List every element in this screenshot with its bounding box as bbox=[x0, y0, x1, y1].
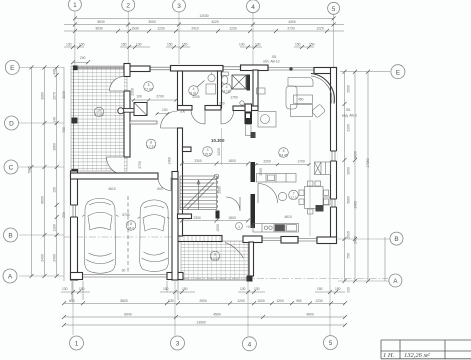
round chair bbox=[278, 192, 286, 200]
svg-text:150: 150 bbox=[79, 287, 85, 291]
svg-text:2410: 2410 bbox=[191, 27, 199, 31]
terrace 200 dim bbox=[71, 56, 90, 64]
svg-text:1700: 1700 bbox=[297, 160, 305, 164]
dining table bbox=[299, 181, 329, 214]
svg-text:750: 750 bbox=[347, 253, 351, 259]
svg-text:B: B bbox=[8, 233, 12, 240]
svg-text:1: 1 bbox=[75, 341, 79, 348]
svg-text:4.18: 4.18 bbox=[223, 90, 230, 94]
svg-text:150: 150 bbox=[79, 43, 85, 47]
svg-text:4610: 4610 bbox=[108, 187, 116, 191]
stairs bbox=[180, 176, 217, 210]
svg-text:10: 10 bbox=[97, 109, 101, 113]
bath door 2 arc bbox=[221, 110, 234, 124]
svg-text:150: 150 bbox=[309, 43, 315, 47]
svg-text:вид. АВ-3: вид. АВ-3 bbox=[342, 114, 357, 118]
svg-text:3: 3 bbox=[176, 341, 180, 348]
hall-kitchen door arc bbox=[226, 197, 240, 211]
terrace top edge bbox=[78, 67, 125, 68]
svg-text:150: 150 bbox=[182, 43, 188, 47]
bottom wall seg A textured bbox=[177, 236, 222, 242]
bubble D left bbox=[5, 116, 19, 130]
svg-text:630: 630 bbox=[168, 299, 174, 303]
kitchen west wall lower bbox=[251, 194, 256, 228]
svg-text:12030: 12030 bbox=[199, 14, 208, 18]
svg-text:2300: 2300 bbox=[194, 159, 202, 163]
svg-text:200: 200 bbox=[62, 212, 66, 218]
svg-text:130: 130 bbox=[239, 43, 245, 47]
svg-text:1500: 1500 bbox=[216, 224, 220, 232]
shelf near wall bbox=[257, 88, 266, 94]
axis stems right bbox=[338, 72, 390, 281]
svg-text:3430: 3430 bbox=[217, 148, 221, 156]
svg-text:1230: 1230 bbox=[315, 299, 323, 303]
top tiny ticks row bbox=[64, 43, 315, 50]
svg-text:130: 130 bbox=[136, 43, 142, 47]
bottom window 1 bbox=[262, 236, 281, 242]
bubble B left bbox=[4, 228, 18, 242]
bubble 5 top bbox=[328, 2, 340, 14]
bubble 2 top bbox=[122, 0, 135, 11]
svg-text:Sl1: Sl1 bbox=[346, 108, 351, 112]
fireplace flue rod bbox=[123, 109, 135, 113]
right wall bbox=[331, 68, 337, 244]
bottom tiny ticks row bbox=[61, 287, 345, 294]
bottom wall seg C bbox=[281, 237, 298, 244]
right window 2 bbox=[330, 199, 337, 207]
svg-text:1390: 1390 bbox=[53, 224, 57, 232]
svg-text:1200: 1200 bbox=[276, 299, 284, 303]
svg-text:1230: 1230 bbox=[157, 27, 165, 31]
bathroom east wall bbox=[253, 70, 258, 108]
svg-text:2: 2 bbox=[126, 2, 130, 9]
svg-text:2700: 2700 bbox=[156, 95, 164, 99]
svg-text:3960: 3960 bbox=[41, 92, 45, 100]
bathroom west wall bbox=[218, 71, 222, 108]
svg-text:6940: 6940 bbox=[124, 313, 132, 317]
svg-text:Sl1: Sl1 bbox=[272, 55, 277, 59]
svg-text:5700: 5700 bbox=[122, 213, 130, 217]
garage door lines bbox=[83, 275, 168, 278]
top french door bbox=[268, 65, 314, 73]
column lower terrace bbox=[247, 276, 253, 282]
axis stems top bbox=[75, 11, 334, 67]
garage bottom wall left cap bbox=[71, 273, 83, 280]
column E1 bbox=[73, 65, 78, 70]
room tag 6 bbox=[279, 148, 289, 158]
svg-text:17.92: 17.92 bbox=[95, 113, 103, 117]
svg-text:2730: 2730 bbox=[138, 161, 142, 169]
room tag terrace low bbox=[210, 251, 220, 261]
axis stems left bbox=[19, 67, 64, 276]
svg-text:1220: 1220 bbox=[316, 27, 324, 31]
bath door 1 arc bbox=[191, 110, 205, 124]
svg-text:B: B bbox=[394, 236, 398, 243]
svg-text:E: E bbox=[10, 65, 15, 72]
svg-text:2000: 2000 bbox=[218, 186, 222, 194]
garage bottom wall right cap bbox=[167, 273, 183, 280]
svg-text:3: 3 bbox=[207, 148, 209, 152]
kitchen wall cabinets bbox=[315, 162, 331, 175]
bottom overall 13930 bbox=[62, 321, 347, 328]
kitchen side cabinet bbox=[246, 125, 252, 136]
svg-text:2590: 2590 bbox=[347, 85, 351, 93]
svg-text:1800: 1800 bbox=[228, 216, 236, 220]
svg-text:C: C bbox=[9, 165, 14, 172]
room tag 4 bbox=[189, 81, 205, 96]
svg-text:1230: 1230 bbox=[229, 27, 237, 31]
top wall piers bbox=[124, 66, 150, 72]
svg-text:150: 150 bbox=[335, 287, 341, 291]
svg-text:100: 100 bbox=[162, 108, 168, 112]
svg-text:1: 1 bbox=[238, 225, 240, 229]
bottom wall seg B bbox=[243, 236, 262, 243]
sofa top seat bbox=[286, 78, 313, 110]
svg-text:1460: 1460 bbox=[168, 157, 172, 165]
svg-text:4610: 4610 bbox=[284, 215, 292, 219]
svg-text:130: 130 bbox=[254, 287, 260, 291]
hearth bench wall bbox=[130, 121, 157, 124]
top dim row2 bbox=[64, 20, 344, 27]
svg-text:520: 520 bbox=[219, 102, 225, 106]
bubble A right bbox=[389, 274, 402, 287]
svg-text:24.46: 24.46 bbox=[279, 154, 287, 158]
top window 1 bbox=[150, 66, 171, 71]
axis stems bottom bbox=[73, 244, 330, 336]
lower terrace hatch bbox=[181, 241, 249, 280]
svg-text:5800: 5800 bbox=[120, 299, 128, 303]
room tag garage bbox=[126, 221, 136, 231]
toilet bbox=[221, 72, 229, 84]
room tag terrace bbox=[94, 107, 104, 117]
axis A dash-dot line bbox=[182, 278, 388, 280]
svg-text:600: 600 bbox=[157, 187, 163, 191]
svg-text:2200: 2200 bbox=[259, 168, 263, 176]
svg-text:4400: 4400 bbox=[288, 20, 296, 24]
armchair bbox=[311, 104, 325, 118]
svg-text:150: 150 bbox=[167, 43, 173, 47]
bubble 3 bottom bbox=[171, 336, 185, 350]
bubble 5 bottom bbox=[324, 336, 338, 350]
svg-text:200: 200 bbox=[80, 56, 86, 60]
svg-text:8: 8 bbox=[150, 141, 152, 145]
bubble 1 top bbox=[68, 0, 81, 11]
note Sl1 right bbox=[342, 108, 357, 118]
kitchen appliance right bbox=[316, 205, 324, 212]
svg-text:4590: 4590 bbox=[213, 313, 221, 317]
garage top wall bbox=[71, 173, 159, 179]
garage foundation ticks bbox=[72, 281, 178, 300]
hall pier bbox=[216, 211, 220, 219]
room tag 1 bbox=[144, 82, 154, 92]
corridor wall y214 bbox=[178, 214, 192, 219]
svg-text:150: 150 bbox=[295, 43, 301, 47]
svg-text:3000: 3000 bbox=[347, 167, 351, 175]
house left wall upper bbox=[124, 64, 130, 77]
shower wall bar bbox=[247, 75, 251, 91]
svg-text:17360: 17360 bbox=[366, 158, 370, 167]
svg-text:4900: 4900 bbox=[306, 313, 314, 317]
right window 1 bbox=[330, 151, 337, 161]
house left wall mid bbox=[124, 91, 130, 157]
svg-text:150: 150 bbox=[53, 187, 57, 193]
garage house door arc bbox=[158, 178, 171, 191]
wardrobe room4 bbox=[206, 84, 216, 94]
rug bbox=[291, 105, 313, 117]
svg-text:1750: 1750 bbox=[230, 96, 238, 100]
svg-text:1400: 1400 bbox=[354, 201, 358, 209]
svg-text:3960: 3960 bbox=[53, 143, 57, 151]
beam line bbox=[309, 120, 311, 236]
svg-text:330: 330 bbox=[347, 287, 351, 293]
room tag 3 bbox=[203, 147, 213, 157]
cabinet living bbox=[258, 112, 276, 128]
bubble C left bbox=[4, 160, 18, 174]
svg-text:D: D bbox=[9, 121, 14, 128]
svg-text:2: 2 bbox=[226, 85, 228, 89]
svg-text:3: 3 bbox=[177, 3, 181, 10]
svg-text:30: 30 bbox=[122, 269, 126, 273]
svg-text:6600: 6600 bbox=[41, 196, 45, 204]
svg-text:A: A bbox=[393, 278, 398, 285]
bubble 4 top bbox=[247, 0, 260, 13]
svg-text:5930: 5930 bbox=[97, 20, 105, 24]
svg-text:2730: 2730 bbox=[287, 27, 295, 31]
svg-text:1000: 1000 bbox=[257, 299, 265, 303]
svg-text:2400: 2400 bbox=[41, 254, 45, 262]
bubble 1 bottom bbox=[70, 336, 84, 350]
hall door arc bbox=[161, 111, 178, 128]
svg-text:132,26 м²: 132,26 м² bbox=[404, 352, 431, 359]
svg-text:7: 7 bbox=[293, 192, 295, 196]
upper terrace hatch bbox=[71, 66, 127, 171]
kitchen west wall upper bbox=[251, 162, 256, 182]
garage left vent bbox=[70, 205, 78, 217]
svg-text:8: 8 bbox=[130, 222, 132, 226]
garage right wall bbox=[172, 179, 178, 280]
wall shelf bbox=[251, 132, 256, 138]
svg-text:2030: 2030 bbox=[347, 231, 351, 239]
svg-text:7985: 7985 bbox=[28, 166, 32, 174]
right chains bbox=[343, 70, 386, 293]
corridor wall y106 bbox=[178, 106, 193, 111]
extension line stairs bbox=[221, 128, 223, 165]
svg-text:A: A bbox=[8, 274, 13, 281]
svg-text:3930: 3930 bbox=[95, 27, 103, 31]
svg-text:13930: 13930 bbox=[196, 321, 205, 325]
svg-text:200: 200 bbox=[180, 110, 186, 114]
svg-text:9: 9 bbox=[214, 253, 216, 257]
svg-text:2300: 2300 bbox=[347, 124, 351, 132]
svg-text:5: 5 bbox=[148, 83, 150, 87]
bubble B right bbox=[390, 232, 403, 245]
wall stub at stairs bbox=[183, 147, 192, 152]
svg-text:130: 130 bbox=[66, 43, 72, 47]
car 1 bbox=[82, 198, 119, 273]
bubble 3 top bbox=[173, 0, 186, 12]
svg-text:960: 960 bbox=[296, 299, 302, 303]
svg-text:150: 150 bbox=[121, 43, 127, 47]
top dim row3 bbox=[64, 27, 344, 34]
spine wall lower bbox=[178, 128, 183, 236]
shower box bbox=[232, 75, 246, 89]
svg-text:150: 150 bbox=[163, 287, 169, 291]
fireplace bbox=[134, 103, 147, 116]
curved wall arc bbox=[311, 74, 334, 104]
svg-text:17.0: 17.0 bbox=[290, 196, 297, 200]
terrace upper door bbox=[110, 77, 125, 92]
svg-text:4: 4 bbox=[193, 87, 195, 91]
svg-text:9600: 9600 bbox=[354, 151, 358, 159]
svg-text:2430: 2430 bbox=[354, 236, 358, 244]
svg-text:100: 100 bbox=[136, 95, 142, 99]
hall tag bbox=[236, 223, 255, 230]
coffee table bbox=[294, 95, 313, 103]
svg-text:4220: 4220 bbox=[211, 20, 219, 24]
svg-text:700: 700 bbox=[62, 127, 66, 133]
svg-text:E: E bbox=[396, 69, 401, 76]
svg-text:140: 140 bbox=[53, 117, 57, 123]
column D1 bbox=[72, 118, 78, 124]
svg-text:4: 4 bbox=[248, 341, 252, 348]
chimney shaft bbox=[245, 104, 252, 112]
flue intake circle bbox=[118, 108, 124, 114]
chimney block bbox=[245, 112, 253, 124]
svg-text:3000: 3000 bbox=[148, 20, 156, 24]
svg-text:14.67: 14.67 bbox=[211, 257, 219, 261]
room1 dim line bbox=[131, 95, 178, 102]
small tag circle bath bbox=[240, 101, 244, 105]
note Sl1 top bbox=[263, 55, 280, 64]
svg-text:4: 4 bbox=[251, 4, 255, 11]
bottom window 2 bbox=[298, 237, 317, 243]
svg-text:130: 130 bbox=[240, 287, 246, 291]
svg-text:17.92: 17.92 bbox=[144, 88, 152, 92]
terrace door arc bbox=[225, 243, 244, 259]
bottom chain row1 bbox=[62, 299, 347, 306]
car 2 bbox=[138, 200, 170, 272]
svg-text:5: 5 bbox=[332, 6, 336, 13]
bubble E left bbox=[5, 60, 19, 74]
sink round bbox=[208, 72, 215, 81]
svg-text:17.31: 17.31 bbox=[147, 145, 155, 149]
lower terrace bottom edge bbox=[178, 279, 249, 281]
stair newel bbox=[214, 174, 219, 179]
room tag 8 lower bbox=[146, 139, 156, 149]
top window 2 bbox=[223, 65, 241, 70]
stair boundary dashed bbox=[216, 176, 218, 210]
kitchen counter bottom bbox=[253, 224, 299, 233]
svg-text:150: 150 bbox=[317, 287, 323, 291]
garage left wall bbox=[71, 171, 78, 280]
title block bbox=[381, 340, 471, 359]
bubble A left bbox=[3, 269, 17, 283]
bottom wall seg D corner bbox=[317, 237, 337, 244]
svg-text:10.300: 10.300 bbox=[211, 138, 225, 143]
svg-text:2970: 2970 bbox=[53, 92, 57, 100]
parking divider dashed bbox=[127, 196, 129, 272]
svg-text:2500: 2500 bbox=[199, 299, 207, 303]
garage top wall right part bbox=[172, 172, 178, 180]
column garage corner bbox=[72, 169, 79, 176]
svg-text:34.0: 34.0 bbox=[128, 227, 135, 231]
svg-text:5: 5 bbox=[329, 340, 333, 347]
dim 100 near fireplace bbox=[156, 108, 170, 115]
svg-text:130: 130 bbox=[255, 43, 261, 47]
room tag 7 bbox=[289, 190, 299, 200]
bubble 4 bottom bbox=[242, 337, 256, 351]
room tag 2 bbox=[222, 84, 232, 94]
terrace lower door bbox=[107, 157, 125, 175]
kitchen counter mid bbox=[257, 174, 297, 183]
lower terrace right wall bbox=[249, 242, 254, 276]
svg-text:2200: 2200 bbox=[263, 160, 271, 164]
svg-text:1200: 1200 bbox=[237, 299, 245, 303]
svg-text:обл. АВ-13: обл. АВ-13 bbox=[263, 60, 280, 64]
svg-text:5860: 5860 bbox=[347, 196, 351, 204]
svg-text:2300: 2300 bbox=[193, 216, 201, 220]
top dim overall 12030 bbox=[73, 14, 336, 21]
svg-text:1930: 1930 bbox=[131, 27, 139, 31]
spine wall upper bbox=[178, 71, 183, 109]
svg-text:1800: 1800 bbox=[228, 159, 236, 163]
kitchen door arc bbox=[258, 184, 278, 204]
svg-text:15.5: 15.5 bbox=[204, 153, 211, 157]
svg-text:2400: 2400 bbox=[53, 254, 57, 262]
bottom chain row2 bbox=[62, 313, 347, 320]
svg-text:2830: 2830 bbox=[62, 91, 66, 99]
bubble E right bbox=[391, 65, 405, 79]
svg-text:1 Н.: 1 Н. bbox=[383, 352, 395, 359]
svg-text:130: 130 bbox=[62, 287, 68, 291]
svg-text:450: 450 bbox=[298, 97, 304, 101]
svg-text:400: 400 bbox=[53, 69, 57, 75]
svg-text:150: 150 bbox=[182, 287, 188, 291]
svg-text:2300: 2300 bbox=[131, 88, 135, 96]
svg-text:6: 6 bbox=[283, 149, 285, 153]
svg-text:+0.20: +0.20 bbox=[246, 225, 255, 229]
left chains bbox=[28, 65, 66, 281]
axis B dash-dot line garage bbox=[64, 236, 178, 238]
svg-text:1: 1 bbox=[73, 2, 77, 9]
plant box right bbox=[324, 197, 331, 205]
svg-text:2200: 2200 bbox=[192, 95, 200, 99]
